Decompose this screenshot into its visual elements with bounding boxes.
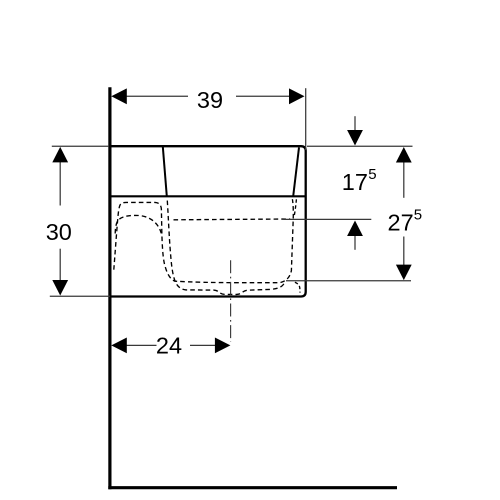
svg-text:5: 5 [414, 207, 422, 224]
svg-text:24: 24 [156, 333, 182, 359]
svg-text:5: 5 [368, 166, 376, 183]
svg-text:39: 39 [197, 87, 223, 113]
svg-text:27: 27 [388, 210, 414, 236]
svg-text:17: 17 [342, 169, 368, 195]
svg-text:30: 30 [46, 219, 72, 245]
